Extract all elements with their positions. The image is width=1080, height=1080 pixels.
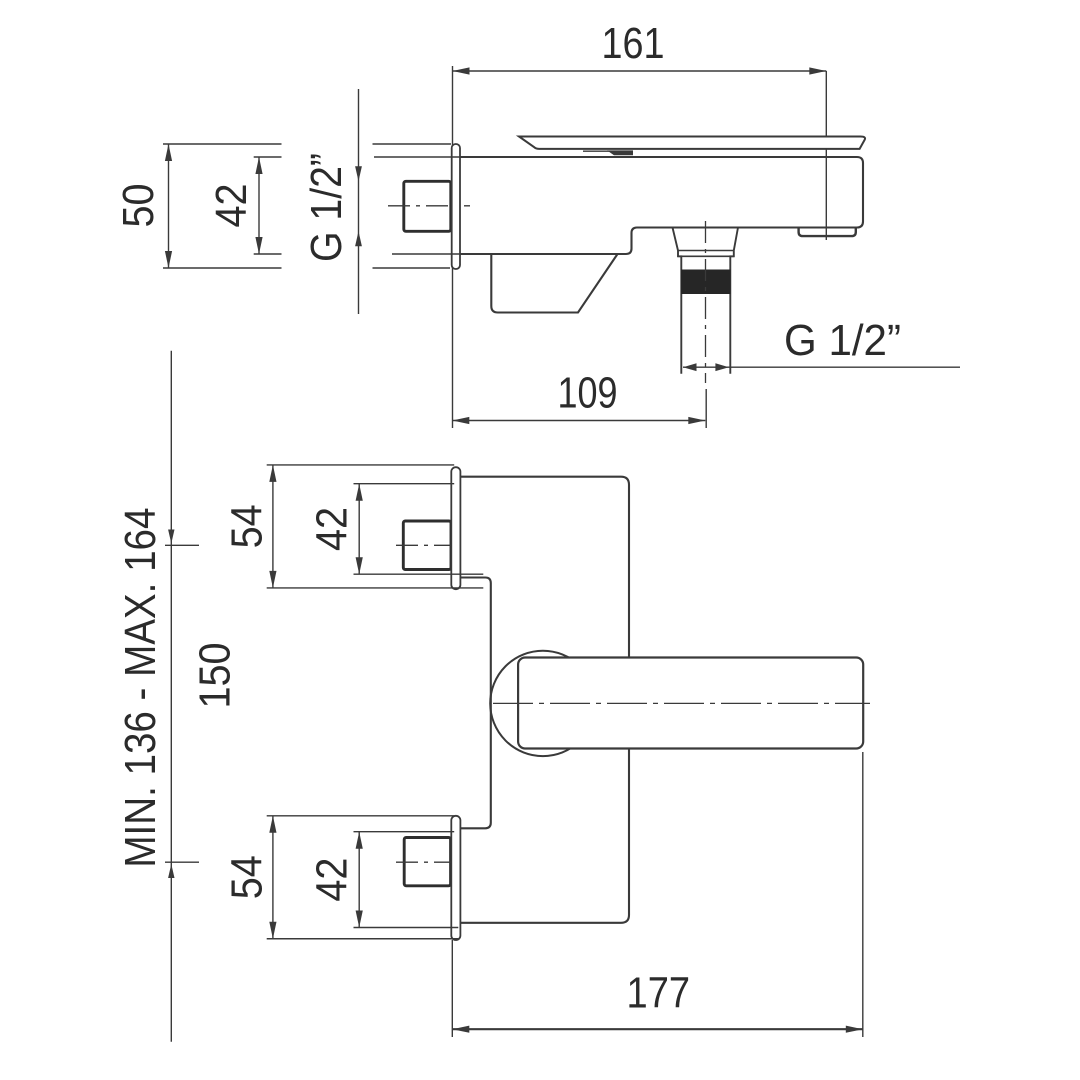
svg-text:42: 42 <box>207 184 256 228</box>
svg-text:42: 42 <box>308 507 357 551</box>
svg-text:54: 54 <box>223 504 272 548</box>
svg-text:G 1/2”: G 1/2” <box>784 316 901 365</box>
svg-text:42: 42 <box>308 858 357 902</box>
svg-text:MIN. 136 - MAX. 164: MIN. 136 - MAX. 164 <box>116 508 165 868</box>
svg-text:50: 50 <box>114 184 163 228</box>
svg-text:177: 177 <box>627 969 691 1018</box>
svg-text:109: 109 <box>558 369 618 418</box>
svg-text:161: 161 <box>602 19 665 68</box>
svg-text:150: 150 <box>190 643 239 709</box>
svg-text:54: 54 <box>223 855 272 899</box>
svg-text:G 1/2”: G 1/2” <box>302 153 351 262</box>
